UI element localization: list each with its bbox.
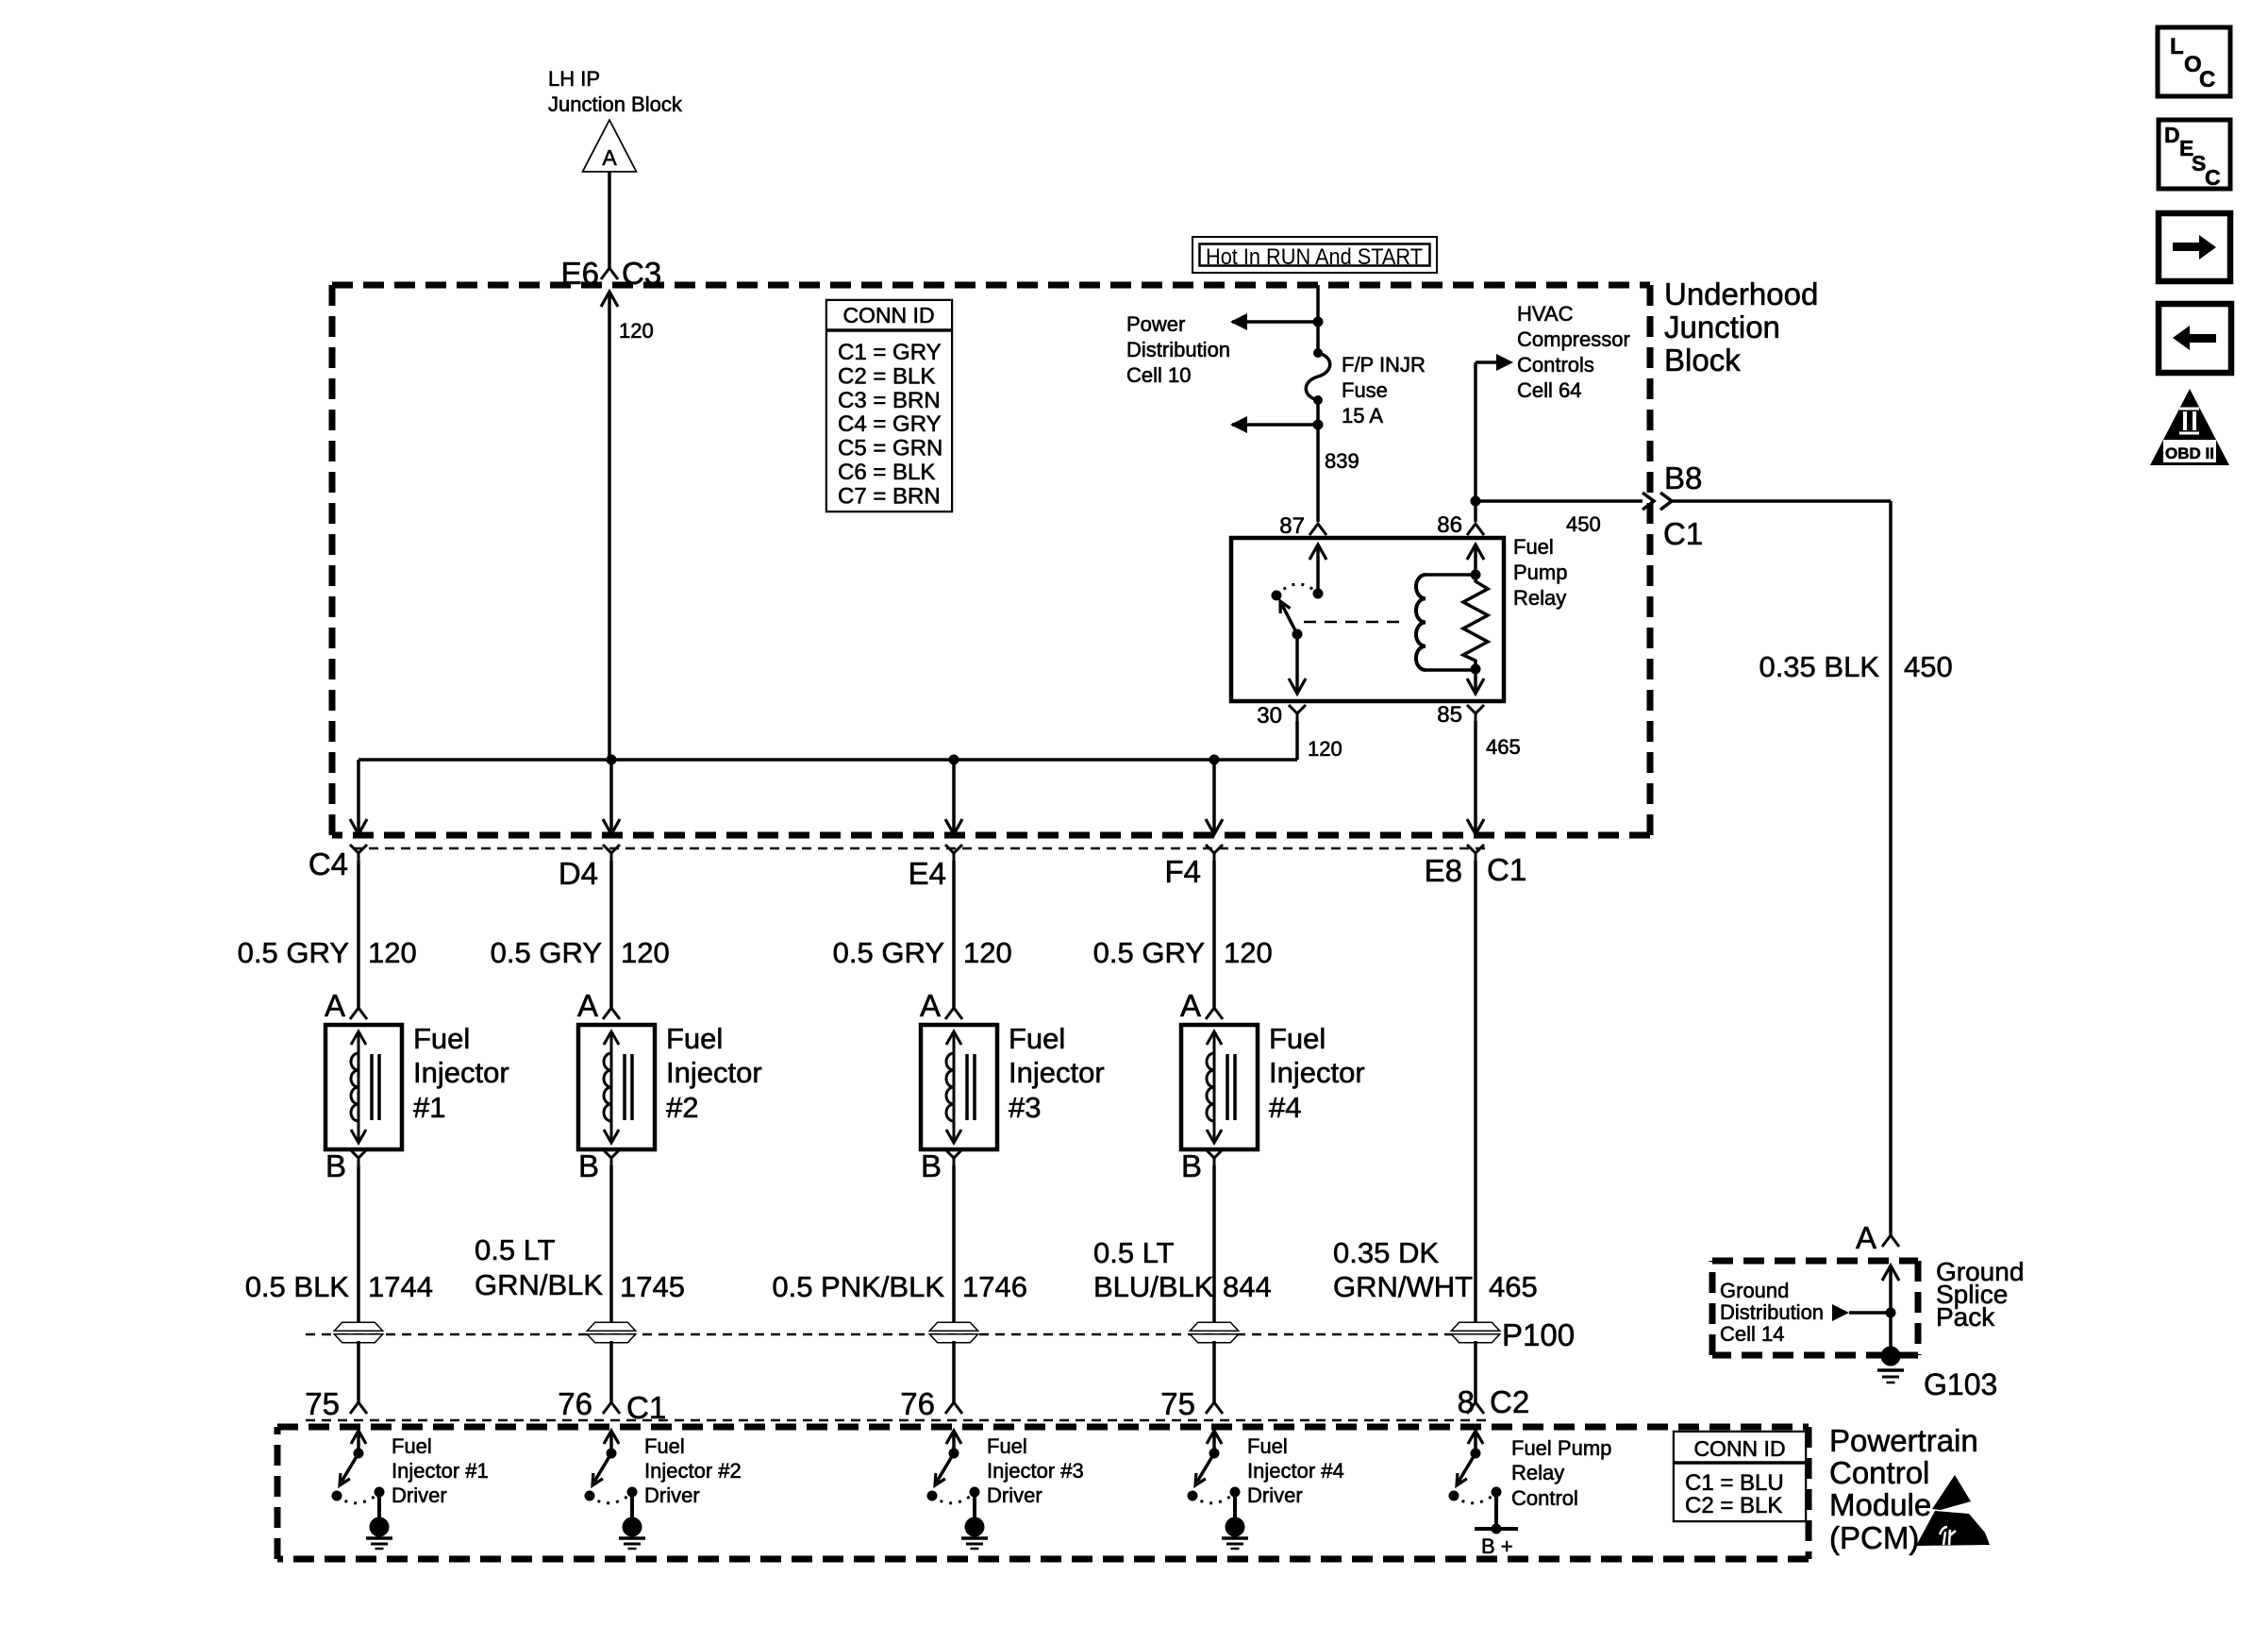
svg-text:0.5 GRY: 0.5 GRY (833, 936, 944, 969)
svg-text:Module: Module (1829, 1487, 1931, 1522)
svg-text:Driver: Driver (644, 1484, 700, 1507)
svg-text:Fuel: Fuel (413, 1022, 470, 1055)
svg-text:Hot In RUN And START: Hot In RUN And START (1206, 244, 1423, 270)
svg-text:BLU/BLK: BLU/BLK (1093, 1270, 1214, 1303)
svg-text:Fuel: Fuel (644, 1434, 685, 1458)
svg-text:Distribution: Distribution (1720, 1300, 1824, 1324)
svg-text:C: C (2199, 67, 2215, 92)
svg-text:Cell 10: Cell 10 (1126, 363, 1191, 387)
svg-text:Injector #3: Injector #3 (987, 1459, 1084, 1483)
svg-text:A: A (602, 145, 617, 170)
svg-text:465: 465 (1489, 1270, 1538, 1303)
svg-text:76: 76 (558, 1386, 592, 1421)
svg-text:LH IP: LH IP (548, 67, 600, 91)
svg-text:Injector: Injector (666, 1056, 762, 1089)
svg-text:1745: 1745 (620, 1270, 685, 1303)
svg-text:C2 = BLK: C2 = BLK (838, 363, 935, 389)
svg-text:Cell 14: Cell 14 (1720, 1322, 1784, 1346)
svg-text:120: 120 (1224, 936, 1273, 969)
svg-text:120: 120 (621, 936, 670, 969)
svg-text:8: 8 (1458, 1384, 1475, 1419)
svg-text:F4: F4 (1164, 854, 1201, 889)
svg-text:Junction: Junction (1664, 310, 1780, 344)
svg-text:B: B (921, 1148, 942, 1183)
svg-text:Injector #2: Injector #2 (644, 1459, 742, 1483)
svg-text:E8: E8 (1425, 853, 1462, 888)
svg-text:Controls: Controls (1517, 353, 1594, 377)
svg-text:E4: E4 (909, 856, 946, 891)
svg-text:Fuse: Fuse (1342, 378, 1388, 402)
svg-text:0.5 GRY: 0.5 GRY (238, 936, 349, 969)
svg-text:Control: Control (1829, 1455, 1929, 1490)
svg-text:Control: Control (1511, 1486, 1578, 1510)
svg-text:HVAC: HVAC (1517, 302, 1574, 326)
svg-text:839: 839 (1325, 449, 1359, 473)
svg-text:Injector #4: Injector #4 (1247, 1459, 1344, 1483)
svg-text:0.5 GRY: 0.5 GRY (1093, 936, 1205, 969)
svg-text:87: 87 (1279, 513, 1305, 539)
svg-text:GRN/BLK: GRN/BLK (475, 1268, 603, 1301)
svg-text:75: 75 (1160, 1386, 1195, 1421)
svg-text:C1 = BLU: C1 = BLU (1685, 1470, 1784, 1496)
svg-text:C3 = BRN: C3 = BRN (838, 388, 941, 413)
svg-text:GRN/WHT: GRN/WHT (1333, 1270, 1473, 1303)
svg-text:75: 75 (305, 1386, 340, 1421)
svg-text:B: B (325, 1148, 346, 1183)
svg-text:C1 = GRY: C1 = GRY (838, 340, 942, 365)
svg-text:B +: B + (1481, 1534, 1513, 1558)
svg-text:Distribution: Distribution (1126, 338, 1230, 361)
svg-text:Injector #1: Injector #1 (392, 1459, 489, 1483)
svg-text:C4 = GRY: C4 = GRY (838, 411, 942, 437)
svg-text:Fuel: Fuel (987, 1434, 1027, 1458)
svg-text:30: 30 (1257, 703, 1282, 729)
svg-text:C1: C1 (1487, 852, 1526, 887)
svg-text:Fuel: Fuel (666, 1022, 723, 1055)
svg-text:Ground: Ground (1720, 1279, 1789, 1302)
svg-text:844: 844 (1223, 1270, 1272, 1303)
svg-text:C7 = BRN: C7 = BRN (838, 483, 941, 509)
svg-text:C4: C4 (309, 847, 348, 881)
svg-text:Relay: Relay (1511, 1461, 1564, 1484)
svg-text:B: B (1181, 1148, 1202, 1183)
svg-text:Fuel: Fuel (1513, 535, 1554, 559)
svg-text:Injector: Injector (1269, 1056, 1365, 1089)
svg-text:A: A (920, 988, 941, 1023)
svg-text:L: L (2170, 34, 2184, 59)
svg-text:Fuel: Fuel (1247, 1434, 1288, 1458)
svg-text:OBD II: OBD II (2165, 444, 2214, 462)
svg-text:Driver: Driver (392, 1484, 447, 1507)
svg-text:0.5 BLK: 0.5 BLK (245, 1270, 350, 1303)
svg-text:86: 86 (1437, 512, 1462, 538)
svg-text:C2: C2 (1490, 1384, 1529, 1419)
svg-text:15 A: 15 A (1342, 404, 1383, 427)
svg-text:A: A (1180, 988, 1201, 1023)
svg-text:A: A (577, 988, 598, 1023)
svg-text:Compressor: Compressor (1517, 327, 1630, 351)
svg-text:465: 465 (1486, 735, 1521, 759)
svg-text:0.35 DK: 0.35 DK (1333, 1236, 1439, 1269)
svg-text:CONN ID: CONN ID (1693, 1436, 1785, 1461)
svg-text:C1: C1 (1663, 516, 1703, 551)
svg-text:Driver: Driver (987, 1484, 1042, 1507)
svg-text:Pack: Pack (1936, 1302, 1995, 1332)
svg-text:0.35 BLK: 0.35 BLK (1759, 650, 1879, 683)
svg-text:P100: P100 (1502, 1317, 1575, 1352)
svg-text:1744: 1744 (368, 1270, 433, 1303)
svg-text:C: C (2205, 165, 2221, 190)
svg-text:Junction Block: Junction Block (548, 92, 683, 116)
svg-text:B: B (578, 1148, 599, 1183)
svg-text:Relay: Relay (1513, 586, 1566, 610)
svg-text:D: D (2164, 123, 2180, 147)
svg-text:120: 120 (963, 936, 1012, 969)
svg-text:Block: Block (1664, 343, 1741, 377)
svg-text:A: A (325, 988, 345, 1023)
svg-text:B8: B8 (1664, 461, 1702, 495)
svg-text:#4: #4 (1269, 1091, 1301, 1124)
svg-text:D4: D4 (559, 856, 598, 891)
svg-text:0.5 LT: 0.5 LT (1093, 1236, 1175, 1269)
svg-text:76: 76 (900, 1386, 935, 1421)
svg-text:1746: 1746 (962, 1270, 1027, 1303)
svg-text:Fuel: Fuel (392, 1434, 432, 1458)
svg-text:Driver: Driver (1247, 1484, 1303, 1507)
svg-text:Fuel: Fuel (1269, 1022, 1326, 1055)
svg-text:Injector: Injector (413, 1056, 509, 1089)
svg-text:85: 85 (1437, 702, 1462, 728)
svg-text:120: 120 (619, 319, 654, 343)
svg-text:C1: C1 (626, 1390, 666, 1425)
svg-text:Pump: Pump (1513, 561, 1567, 584)
svg-text:#1: #1 (413, 1091, 445, 1124)
svg-text:CONN ID: CONN ID (842, 303, 934, 327)
svg-text:#3: #3 (1009, 1091, 1041, 1124)
svg-text:Cell 64: Cell 64 (1517, 378, 1581, 402)
svg-text:0.5 GRY: 0.5 GRY (491, 936, 602, 969)
svg-text:Power: Power (1126, 312, 1185, 336)
svg-text:(PCM): (PCM) (1829, 1520, 1919, 1555)
svg-text:G103: G103 (1924, 1367, 1997, 1401)
svg-text:Powertrain: Powertrain (1829, 1423, 1978, 1458)
svg-text:Injector: Injector (1009, 1056, 1105, 1089)
svg-text:0.5 PNK/BLK: 0.5 PNK/BLK (772, 1270, 944, 1303)
svg-text:C6 = BLK: C6 = BLK (838, 460, 935, 485)
svg-text:450: 450 (1904, 650, 1953, 683)
svg-text:#2: #2 (666, 1091, 698, 1124)
svg-text:Underhood: Underhood (1664, 277, 1818, 311)
svg-text:Fuel: Fuel (1009, 1022, 1065, 1055)
svg-text:120: 120 (1308, 737, 1342, 761)
svg-text:F/P INJR: F/P INJR (1342, 353, 1426, 377)
svg-text:Fuel Pump: Fuel Pump (1511, 1436, 1611, 1460)
svg-text:120: 120 (368, 936, 417, 969)
svg-text:450: 450 (1566, 512, 1601, 536)
svg-text:0.5 LT: 0.5 LT (475, 1233, 556, 1266)
svg-text:C5 = GRN: C5 = GRN (838, 436, 942, 461)
svg-text:A: A (1856, 1220, 1876, 1255)
svg-text:C2 = BLK: C2 = BLK (1685, 1493, 1782, 1518)
